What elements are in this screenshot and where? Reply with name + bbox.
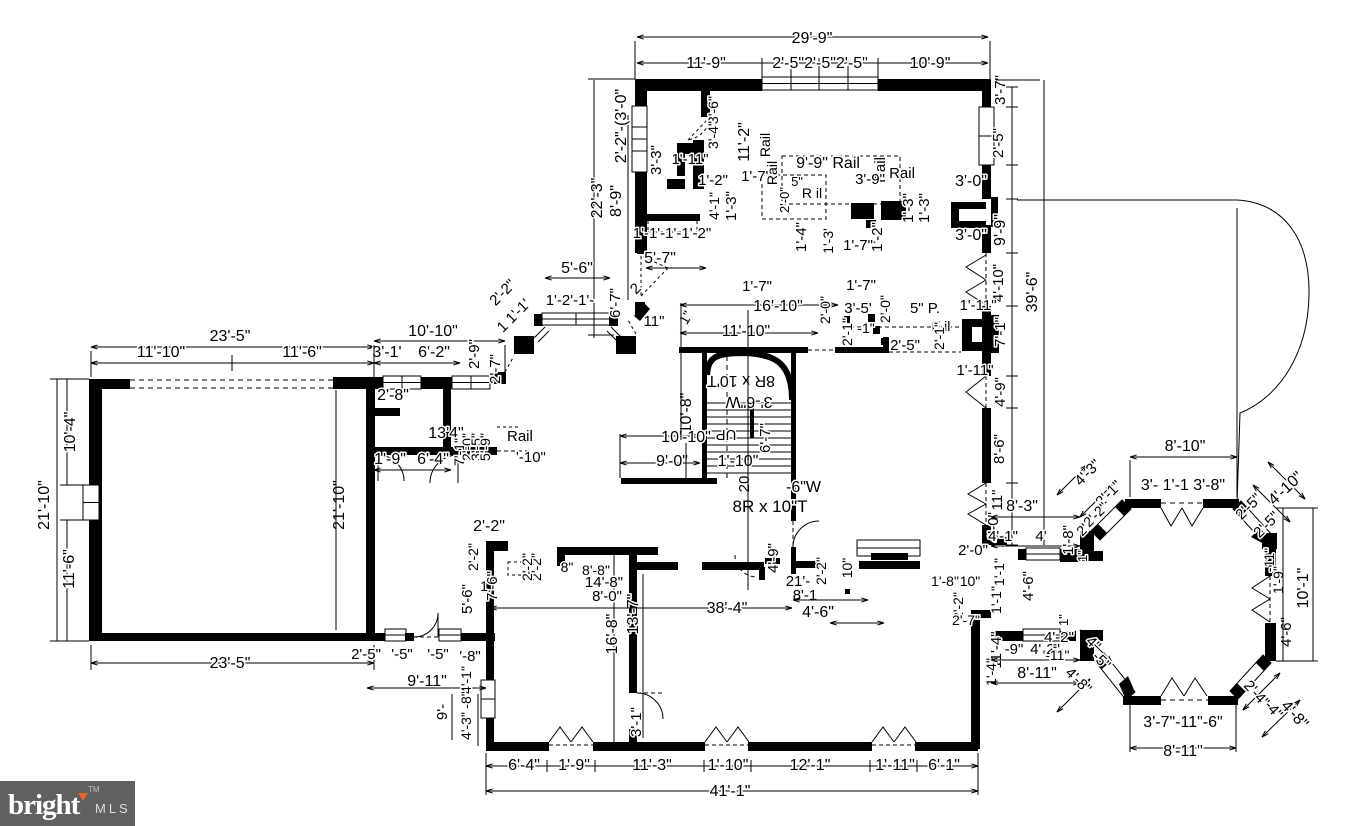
svg-text:2'-2": 2'-2" (813, 557, 829, 585)
svg-text:6'-7": 6'-7" (607, 288, 624, 318)
svg-text:2'-5"2'-5"2'-5": 2'-5"2'-5"2'-5" (772, 55, 868, 72)
svg-text:11": 11" (989, 490, 1006, 511)
svg-text:TM: TM (88, 785, 100, 794)
svg-text:'-10": '-10" (516, 449, 546, 466)
svg-text:1'-3": 1'-3" (723, 191, 740, 221)
svg-text:3'-6": 3'-6" (705, 96, 721, 124)
svg-text:1'-4": 1'-4" (793, 222, 810, 252)
svg-text:41'-1": 41'-1" (710, 783, 751, 800)
svg-text:R il: R il (802, 185, 822, 201)
svg-text:6'-4": 6'-4" (417, 451, 449, 468)
svg-text:2'-0": 2'-0" (958, 542, 988, 559)
svg-text:6'-1": 6'-1" (928, 757, 960, 774)
svg-text:3'-7"-11"-6": 3'-7"-11"-6" (1143, 714, 1222, 731)
svg-text:4'-3": 4'-3" (458, 712, 474, 740)
svg-text:8": 8" (561, 559, 574, 575)
svg-text:6'-2": 6'-2" (418, 344, 450, 361)
svg-text:1'-9": 1'-9" (374, 451, 406, 468)
svg-text:1": 1" (1056, 614, 1071, 626)
svg-text:9'-: 9'- (434, 704, 451, 720)
svg-text:1'-11": 1'-11" (671, 151, 708, 168)
svg-text:3'-0": 3'-0" (955, 173, 987, 190)
svg-text:1'-1": 1'-1" (988, 586, 1004, 614)
svg-text:Rail: Rail (889, 165, 915, 182)
svg-text:1'-7": 1'-7" (843, 237, 873, 254)
svg-text:1'-11": 1'-11" (875, 757, 915, 774)
svg-text:8'-3": 8'-3" (1006, 498, 1038, 515)
svg-text:1'-3": 1'-3" (916, 193, 933, 223)
svg-text:-1": -1" (857, 320, 874, 336)
svg-text:1'-2'-1'-: 1'-2'-1'- (546, 292, 595, 309)
svg-text:12'-1": 12'-1" (790, 757, 831, 774)
svg-text:1'-3": 1'-3" (900, 193, 917, 223)
svg-text:9'-11": 9'-11" (407, 673, 447, 690)
svg-text:23'-5": 23'-5" (210, 328, 251, 345)
svg-text:8'-11": 8'-11" (1017, 665, 1057, 682)
svg-text:Rail: Rail (757, 133, 773, 157)
svg-text:2'-0": 2'-0" (777, 187, 792, 213)
svg-text:8'-9": 8'-9" (608, 185, 625, 217)
svg-text:2'-2"-(3'-0": 2'-2"-(3'-0" (613, 89, 630, 163)
svg-text:1'-1": 1'-1" (991, 558, 1007, 586)
svg-text:4': 4' (1035, 528, 1046, 545)
svg-text:8'-10": 8'-10" (1165, 438, 1206, 455)
svg-text:11'-9": 11'-9" (686, 55, 726, 72)
svg-text:5'-6": 5'-6" (561, 260, 593, 277)
svg-text:1'-10": 1'-10" (718, 453, 759, 470)
svg-text:3'-1": 3'-1" (628, 707, 645, 737)
svg-text:1'-11": 1'-11" (956, 362, 993, 379)
svg-text:5'-9": 5'-9" (477, 433, 493, 461)
svg-text:2'-5": 2'-5" (351, 646, 381, 663)
svg-text:10'-4": 10'-4" (62, 412, 79, 453)
svg-text:3'-3": 3'-3" (648, 145, 665, 175)
svg-text:10'-10": 10'-10" (408, 323, 458, 340)
svg-text:1'-3': 1'-3' (820, 228, 836, 254)
svg-text:7'-1": 7'-1" (992, 317, 1009, 347)
svg-text:11'-2": 11'-2" (736, 122, 753, 162)
svg-text:2'-2": 2'-2" (473, 518, 505, 535)
svg-text:4'-1": 4'-1" (988, 528, 1018, 545)
svg-text:11'-6": 11'-6" (61, 549, 78, 589)
svg-text:1: 1 (480, 578, 488, 594)
svg-text:10'-1": 10'-1" (1295, 568, 1312, 609)
svg-text:8R x 10'T: 8R x 10'T (707, 372, 775, 389)
svg-text:2'-5": 2'-5" (990, 128, 1007, 158)
svg-text:11'-3": 11'-3" (632, 757, 672, 774)
svg-text:-8": -8" (458, 691, 474, 708)
svg-text:2'-7": 2'-7" (487, 354, 504, 384)
svg-text:39'-6": 39'-6" (1024, 272, 1041, 313)
svg-text:8'-0": 8'-0" (592, 588, 622, 605)
svg-text:bright: bright (8, 789, 81, 821)
svg-text:1'-2": 1'-2" (698, 172, 728, 189)
svg-text:20: 20 (736, 476, 753, 493)
svg-text:1'-1'-1'-1'-2": 1'-1'-1'-1'-2" (633, 225, 711, 242)
svg-text:9'-9": 9'-9" (992, 214, 1009, 246)
svg-text:UP: UP (716, 426, 737, 443)
svg-text:1'-7": 1'-7" (742, 278, 772, 295)
svg-text:21'-10": 21'-10" (331, 480, 348, 530)
svg-text:4'-2": 4'-2" (1044, 629, 1074, 646)
svg-text:4'-1": 4'-1" (706, 192, 722, 220)
svg-text:4'-1": 4'-1" (458, 666, 474, 694)
svg-text:1'-10": 1'-10" (708, 757, 749, 774)
svg-text:2'-2": 2'-2" (519, 553, 535, 581)
svg-text:9'-0": 9'-0" (656, 453, 688, 470)
svg-text:16'-8": 16'-8" (604, 614, 621, 655)
svg-text:6'-7": 6'-7" (757, 423, 774, 453)
svg-text:38'-4": 38'-4" (707, 600, 748, 617)
svg-text:21'-10": 21'-10" (36, 480, 53, 530)
svg-text:8'-6": 8'-6" (991, 434, 1008, 464)
svg-text:16'-10": 16'-10" (753, 298, 803, 315)
svg-text:5'-6": 5'-6" (459, 584, 476, 614)
svg-text:11'-10": 11'-10" (137, 344, 185, 361)
svg-text:8'-11": 8'-11" (1163, 743, 1203, 760)
svg-text:2'-8": 2'-8" (377, 387, 409, 404)
svg-text:11'-10": 11'-10" (722, 323, 770, 340)
svg-text:8R x 10"T: 8R x 10"T (732, 497, 807, 516)
svg-text:2'-0": 2'-0" (817, 296, 833, 324)
svg-text:3'-1': 3'-1' (372, 344, 401, 361)
svg-text:2'-0": 2'-0" (877, 295, 893, 323)
svg-text:3'-9": 3'-9" (855, 171, 885, 188)
svg-text:22'-3": 22'-3" (589, 178, 606, 219)
svg-text:23'-5": 23'-5" (210, 655, 251, 672)
svg-text:3'-4": 3'-4" (705, 121, 721, 149)
svg-text:10": 10" (960, 573, 981, 589)
svg-text:4'-6": 4'-6" (1278, 617, 1295, 647)
svg-text:1'-8": 1'-8" (931, 573, 959, 589)
svg-text:-9": -9" (1005, 641, 1024, 658)
svg-text:10": 10" (839, 558, 855, 579)
svg-text:2'-5": 2'-5" (890, 337, 920, 354)
svg-text:2'-9": 2'-9" (466, 339, 483, 369)
svg-text:-6"W: -6"W (786, 479, 822, 496)
svg-text:'-11": '-11" (1043, 647, 1070, 663)
svg-text:'-8": '-8" (459, 648, 481, 665)
svg-text:3'-0": 3'-0" (955, 227, 987, 244)
svg-text:6'-4": 6'-4" (508, 757, 540, 774)
svg-text:5" P.: 5" P. (910, 300, 940, 317)
svg-text:Rail: Rail (507, 428, 533, 445)
svg-text:4'-9": 4'-9" (765, 543, 782, 573)
svg-text:3'- 1'-1 3'-8": 3'- 1'-1 3'-8" (1141, 477, 1225, 494)
svg-text:11": 11" (644, 313, 665, 330)
svg-text:1'-9": 1'-9" (1270, 566, 1286, 594)
svg-text:MLS: MLS (95, 801, 131, 816)
svg-text:2'-2": 2'-2" (465, 543, 481, 571)
svg-text:5'-7": 5'-7" (644, 250, 676, 267)
svg-text:9'-9" Rail: 9'-9" Rail (796, 155, 860, 172)
svg-text:4'-9": 4'-9" (992, 377, 1009, 407)
svg-text:1'-9": 1'-9" (558, 757, 590, 774)
svg-text:3'-6"W: 3'-6"W (725, 393, 773, 410)
svg-text:'-5": '-5" (391, 646, 413, 663)
svg-text:11'-6": 11'-6" (282, 344, 322, 361)
svg-text:2'-1": 2'-1" (839, 318, 855, 346)
svg-text:3'-5': 3'-5' (844, 300, 872, 317)
svg-text:13'-7": 13'-7" (625, 594, 642, 635)
svg-text:4'-6": 4'-6" (1020, 571, 1037, 601)
svg-text:1'-11": 1'-11" (959, 297, 996, 314)
svg-text:2'-7": 2'-7" (952, 612, 980, 628)
svg-text:2'-1": 2'-1" (931, 322, 947, 350)
svg-text:10'-9": 10'-9" (910, 55, 951, 72)
svg-text:Rail: Rail (764, 161, 780, 185)
svg-text:1": 1" (1075, 550, 1090, 562)
svg-text:4'-6": 4'-6" (802, 604, 834, 621)
svg-text:'-5": '-5" (427, 646, 449, 663)
svg-text:29'-9": 29'-9" (792, 30, 833, 47)
svg-text:1'-7": 1'-7" (846, 277, 876, 294)
